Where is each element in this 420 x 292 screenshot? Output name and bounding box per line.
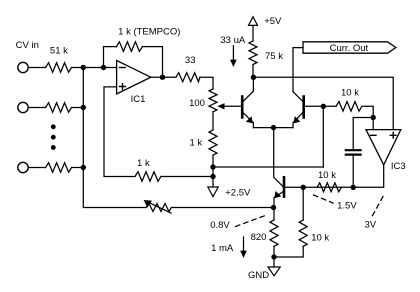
node feedback junction xyxy=(101,65,106,70)
IC3 plus glyph xyxy=(390,133,396,139)
wire Q3 emitter to R11 xyxy=(273,208,275,221)
wire current rail to IC3 plus xyxy=(253,77,393,129)
wire J3 to R3 xyxy=(29,167,46,169)
svg-text:820: 820 xyxy=(251,232,267,243)
Q3 emitter xyxy=(274,192,283,208)
wire IC3 output xyxy=(303,165,384,187)
resistor R11 820 xyxy=(270,220,278,246)
Q3 collector xyxy=(274,128,283,187)
wire J1 to R1 xyxy=(29,67,46,69)
wire RV1 to R7 xyxy=(212,112,214,130)
capacitor C1 xyxy=(346,150,361,154)
signal flag Curr. Out xyxy=(303,42,396,53)
Q2 emitter arrow xyxy=(293,116,300,123)
transistor Q3 bar xyxy=(283,177,286,196)
annotation dashed 0.8V xyxy=(236,215,269,227)
resistor R10 10k xyxy=(317,183,341,192)
node input-sum junction 2 xyxy=(81,105,86,110)
wire R1 to IC1 minus xyxy=(72,67,117,69)
node input-sum junction 1 xyxy=(81,65,86,70)
resistor R2 51k xyxy=(46,103,72,113)
wire R6 to divider chain xyxy=(200,77,213,89)
op-amp IC3 xyxy=(366,130,401,165)
wire to GND symbol xyxy=(273,257,275,267)
Q1 emitter xyxy=(243,113,253,128)
wire R11 to ground node xyxy=(273,246,275,257)
wire flag to Q2 collector xyxy=(293,48,303,92)
wire +5V to R8 xyxy=(252,25,254,41)
node ground junction xyxy=(271,254,276,259)
IC1 minus glyph xyxy=(120,67,126,69)
RV1 wiper arrow from Q1 base xyxy=(222,105,241,107)
svg-text:Curr. Out: Curr. Out xyxy=(330,43,369,54)
resistor R6 33 xyxy=(176,73,200,82)
svg-text:GND: GND xyxy=(248,270,269,281)
svg-text:+5V: +5V xyxy=(264,16,282,27)
svg-text:1.5V: 1.5V xyxy=(337,200,357,211)
svg-text:10 k: 10 k xyxy=(341,88,359,99)
node 1k bottom junction xyxy=(210,164,215,169)
input jack J2 xyxy=(18,102,28,112)
wire R7 to +2.5V rail node xyxy=(212,156,214,188)
Q3 emitter arrow xyxy=(274,191,281,198)
node Q3 emitter junction xyxy=(271,205,276,210)
input jack J1 xyxy=(18,62,28,72)
wire R12 branch xyxy=(302,187,304,220)
transistor Q1 bar xyxy=(241,97,244,118)
svg-text:10 k: 10 k xyxy=(311,233,329,244)
svg-text:100: 100 xyxy=(189,98,205,109)
svg-text:33: 33 xyxy=(185,55,196,66)
1mA annotation arrow xyxy=(243,237,245,253)
node current summing junction xyxy=(251,75,256,80)
svg-text:CV in: CV in xyxy=(16,40,39,51)
ellipsis more inputs xyxy=(51,124,56,150)
33uA annotation arrow xyxy=(232,46,234,62)
annotation dashed 1.5V xyxy=(314,195,334,203)
svg-text:IC1: IC1 xyxy=(131,94,146,105)
wire R5 to ground node xyxy=(161,176,213,178)
wire R9 to IC3 minus xyxy=(363,106,373,129)
wire R12 bottom to ground node xyxy=(274,246,303,257)
resistor R4 1k TEMPCO xyxy=(116,42,142,52)
ground +2.5V symbol xyxy=(208,187,218,197)
svg-text:IC3: IC3 xyxy=(391,161,406,172)
resistor R1 51k xyxy=(46,63,72,73)
wire summing bus down to trimmer row xyxy=(83,68,146,208)
resistor RV1 100 body xyxy=(209,89,217,112)
node cap output junction xyxy=(351,185,356,190)
wire emitters rail xyxy=(253,127,293,129)
node input-sum junction 3 xyxy=(81,165,86,170)
wire trimmer to Q3 emitter node xyxy=(171,207,273,209)
annotation dashed 3V xyxy=(372,197,383,217)
Q1 emitter arrow xyxy=(246,116,253,123)
power +5V symbol xyxy=(249,17,258,26)
wire emitter-reference rail xyxy=(213,166,323,168)
svg-text:1 k: 1 k xyxy=(137,158,150,169)
svg-text:33 uA: 33 uA xyxy=(220,35,245,46)
wire IC1 plus input xyxy=(104,87,135,177)
wire J2 to R2 xyxy=(29,107,46,109)
svg-text:75 k: 75 k xyxy=(265,51,283,62)
Q2 collector xyxy=(293,92,303,102)
svg-text:1 k: 1 k xyxy=(189,138,202,149)
node IC3 minus junction xyxy=(371,115,376,120)
node IC1 output junction xyxy=(160,75,165,80)
node emitters junction xyxy=(271,125,276,130)
trimmer RV2 scale xyxy=(146,204,171,212)
wire R2 to bus xyxy=(72,107,84,109)
IC3 minus glyph xyxy=(371,134,376,136)
wire cap bottom branch xyxy=(352,156,354,188)
resistor R12 10k xyxy=(299,220,307,246)
node R5 ground junction xyxy=(210,174,215,179)
resistor R7 1k xyxy=(209,130,217,155)
wire feedback loop right xyxy=(142,47,162,78)
ground GND symbol xyxy=(268,267,280,276)
node Q3 base junction xyxy=(301,185,306,190)
input jack J3 xyxy=(18,162,28,172)
wire R8 to current node xyxy=(252,65,254,78)
Q2 base wire xyxy=(305,105,336,107)
resistor R5 1k xyxy=(135,172,161,182)
svg-text:1 k (TEMPCO): 1 k (TEMPCO) xyxy=(118,26,180,37)
node Q2 base junction xyxy=(321,104,326,109)
resistor R3 51k xyxy=(46,163,72,173)
IC1 plus glyph xyxy=(120,84,126,90)
svg-text:10 k: 10 k xyxy=(318,170,336,181)
svg-text:1 mA: 1 mA xyxy=(211,243,234,254)
svg-text:0.8V: 0.8V xyxy=(210,220,230,231)
op-amp IC1 xyxy=(117,61,151,95)
wire feedback loop left xyxy=(104,47,117,68)
resistor R8 75k xyxy=(249,41,257,65)
resistor R9 10k xyxy=(336,102,362,112)
Q1 collector xyxy=(243,77,253,101)
wire R3 to bus xyxy=(72,167,84,169)
transistor Q2 bar xyxy=(302,97,305,118)
trimmer RV2 arrow xyxy=(150,203,172,213)
wire Q2 base to reference rail xyxy=(322,106,324,167)
svg-text:3V: 3V xyxy=(364,219,376,230)
wire cap top branch xyxy=(353,118,373,150)
svg-text:51 k: 51 k xyxy=(50,46,68,57)
Q2 emitter xyxy=(293,113,303,128)
svg-text:+2.5V: +2.5V xyxy=(225,188,251,199)
Q3 base wire xyxy=(285,186,303,188)
wire IC1 output xyxy=(151,76,176,78)
